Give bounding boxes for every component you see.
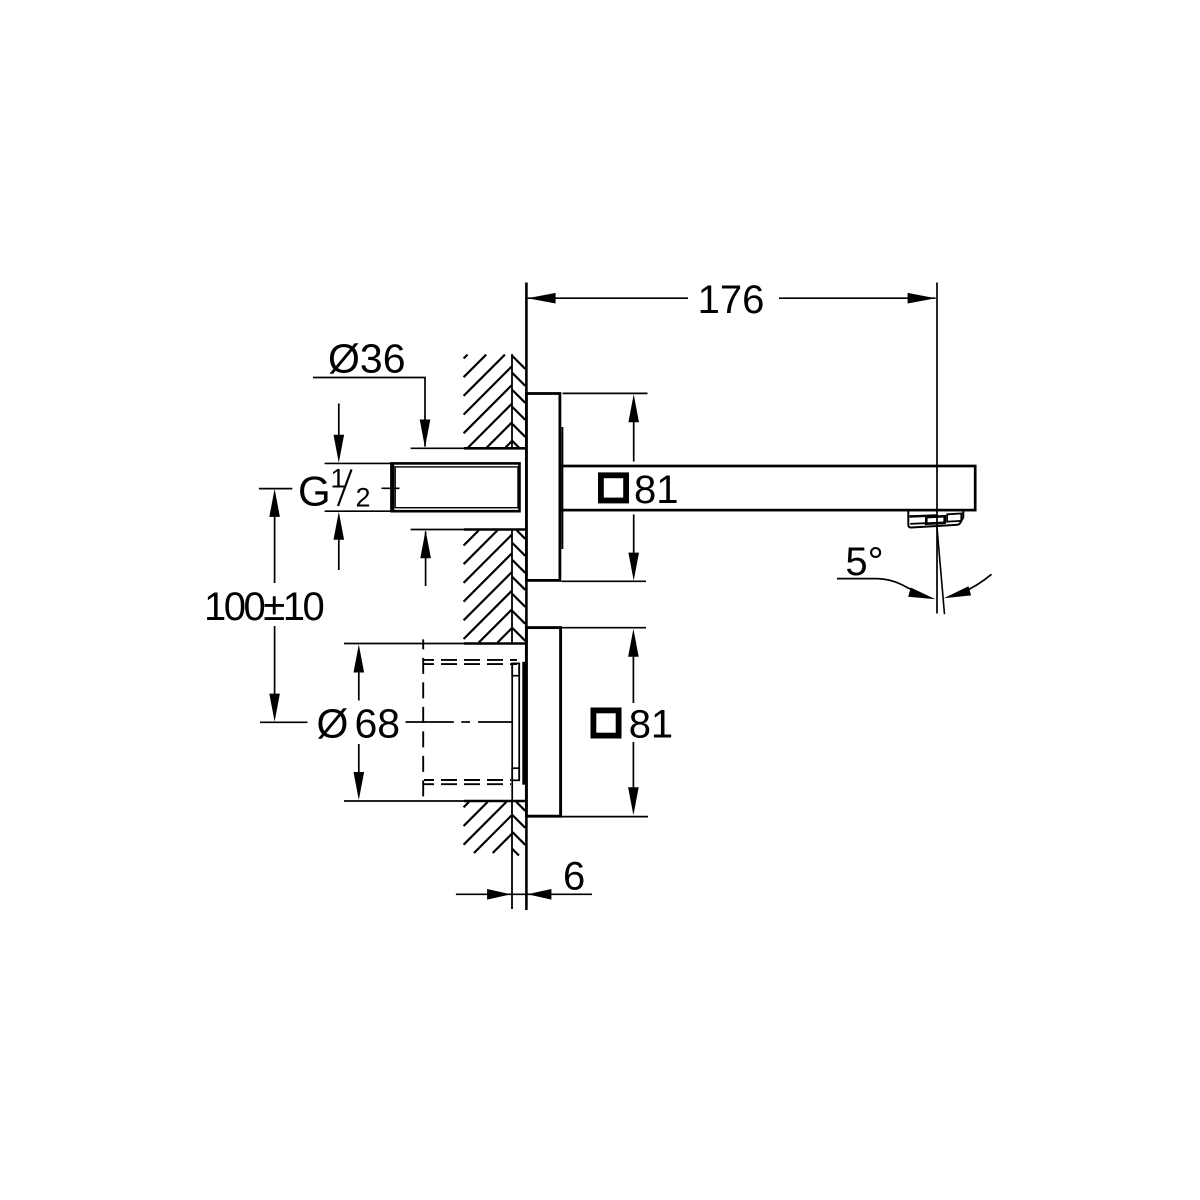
dimension O68	[354, 645, 365, 673]
tile boundary line	[511, 354, 513, 909]
G1/2 leader tick	[382, 487, 400, 489]
dimension 100 +-10	[259, 488, 292, 490]
concealed body hidden top edge pair	[424, 660, 517, 784]
upper plate face second line	[561, 427, 563, 549]
svg-text:Ø: Ø	[317, 700, 349, 746]
concealed body hidden rear edge (dashed vertical)	[422, 639, 424, 804]
upper square-81 dimension	[563, 392, 648, 394]
threaded pipe nipple	[392, 463, 520, 512]
wall face line	[525, 283, 528, 911]
5 degree arc right with arrow	[962, 574, 992, 593]
sensor strip heavy bar	[522, 662, 525, 785]
lower escutcheon plate	[526, 628, 560, 817]
hole edge lower top	[464, 642, 526, 645]
svg-text:6: 6	[563, 854, 585, 898]
hole edge lower bottom	[464, 800, 526, 803]
upper escutcheon plate	[526, 394, 560, 581]
dimension 176	[528, 297, 936, 299]
5 degree slanted stream line	[937, 524, 945, 614]
lower square-81 dimension	[561, 627, 646, 629]
svg-text:68: 68	[355, 700, 401, 746]
svg-text:100±10: 100±10	[204, 585, 323, 629]
svg-text:Ø36: Ø36	[328, 335, 406, 381]
wall hatching	[464, 355, 526, 856]
svg-text:81: 81	[629, 703, 674, 747]
sensor window strip	[512, 663, 519, 801]
aerator / mousseur	[908, 511, 963, 528]
right extension line	[936, 283, 938, 614]
svg-text:G: G	[298, 468, 331, 515]
hole edge upper top	[464, 447, 526, 450]
spout body	[560, 466, 975, 510]
svg-text:81: 81	[634, 468, 679, 512]
svg-text:2: 2	[356, 483, 371, 513]
hole edge upper bottom	[464, 528, 526, 531]
svg-text:176: 176	[698, 278, 765, 322]
centerline lower assembly	[406, 721, 512, 723]
dimension 6 (tile thickness)	[456, 893, 592, 895]
5 degree leader line	[837, 578, 878, 580]
G1/2 dimension arrows	[338, 404, 340, 438]
O36 leader	[313, 378, 426, 587]
svg-text:5°: 5°	[845, 540, 883, 584]
5 degree arc left with arrow	[878, 579, 921, 594]
